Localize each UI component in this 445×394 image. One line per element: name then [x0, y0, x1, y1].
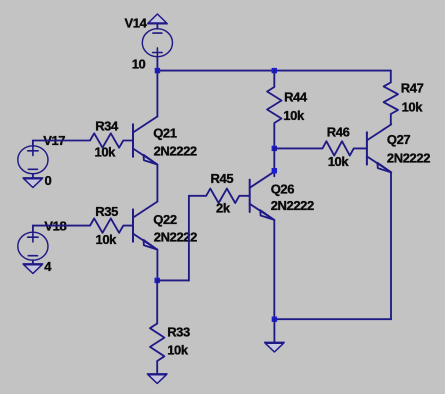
- ground (flipped, points up) above V14: [148, 14, 168, 24]
- svg-text:R44: R44: [284, 90, 308, 105]
- svg-text:R45: R45: [211, 171, 234, 186]
- svg-text:R47: R47: [401, 80, 424, 95]
- voltage source V18: [18, 226, 48, 264]
- wire top rail to Q21 collector: [156, 71, 158, 117]
- voltage source V17: [18, 141, 48, 178]
- resistor R34: [33, 133, 133, 147]
- svg-text:R46: R46: [327, 125, 350, 140]
- resistor R47: [384, 71, 398, 125]
- ground middle: [265, 342, 285, 352]
- wire bottom rail: [274, 318, 391, 320]
- transistor Q26 2N2222: [250, 172, 274, 220]
- ground below V17: [23, 178, 43, 188]
- svg-text:10k: 10k: [328, 154, 350, 169]
- wire Q26 emitter down: [273, 220, 275, 319]
- resistor R35: [33, 218, 133, 232]
- transistor Q21 2N2222: [133, 117, 157, 165]
- transistor Q27 2N2222: [367, 124, 391, 172]
- svg-text:Q22: Q22: [153, 212, 177, 227]
- svg-text:Q21: Q21: [153, 126, 177, 141]
- svg-text:10k: 10k: [167, 342, 189, 357]
- svg-text:10k: 10k: [96, 232, 118, 247]
- ground below R33: [147, 374, 167, 384]
- svg-text:10k: 10k: [95, 145, 117, 160]
- junction node bottom: [272, 317, 277, 322]
- wire riser to R45: [188, 196, 190, 281]
- wire Q22 emitter down: [156, 250, 158, 281]
- junction node top-middle: [272, 68, 277, 73]
- ground below V18: [23, 264, 43, 274]
- svg-text:Q26: Q26: [271, 182, 295, 197]
- wire V14 to top rail: [156, 57, 158, 71]
- junction node Q26 collector: [272, 168, 277, 173]
- wire node to riser: [157, 279, 189, 281]
- svg-text:10k: 10k: [283, 108, 305, 123]
- wire to mid ground: [273, 319, 275, 342]
- svg-text:2N2222: 2N2222: [271, 198, 314, 213]
- resistor R33: [150, 324, 164, 374]
- resistor R46: [274, 141, 367, 155]
- resistor R44: [267, 71, 281, 149]
- svg-text:0: 0: [45, 173, 52, 188]
- svg-text:R34: R34: [95, 118, 119, 133]
- wire node to Q26 collector (passes junction): [273, 148, 275, 176]
- svg-text:V14: V14: [125, 15, 148, 30]
- svg-text:10: 10: [132, 57, 146, 72]
- svg-text:2k: 2k: [216, 201, 231, 216]
- voltage source V14 (flipped: - up, + down): [142, 24, 172, 57]
- svg-text:10k: 10k: [402, 100, 424, 115]
- wire Q21 emitter to Q22 collector: [156, 165, 158, 202]
- svg-text:2N2222: 2N2222: [387, 151, 430, 166]
- wire top rail: [157, 70, 390, 72]
- resistor R45: [189, 189, 250, 203]
- wire Q27 emitter down: [390, 172, 392, 319]
- junction node R44/R46: [272, 146, 277, 151]
- svg-text:R35: R35: [95, 204, 118, 219]
- svg-text:R33: R33: [167, 325, 190, 340]
- wire node to R33: [156, 280, 158, 323]
- svg-text:4: 4: [44, 259, 52, 274]
- svg-text:2N2222: 2N2222: [154, 144, 197, 159]
- transistor Q22 2N2222: [133, 202, 157, 250]
- svg-text:Q27: Q27: [387, 132, 411, 147]
- junction node Q22 emitter / R33: [155, 278, 160, 283]
- junction node top-left: [155, 68, 160, 73]
- svg-text:2N2222: 2N2222: [154, 230, 197, 245]
